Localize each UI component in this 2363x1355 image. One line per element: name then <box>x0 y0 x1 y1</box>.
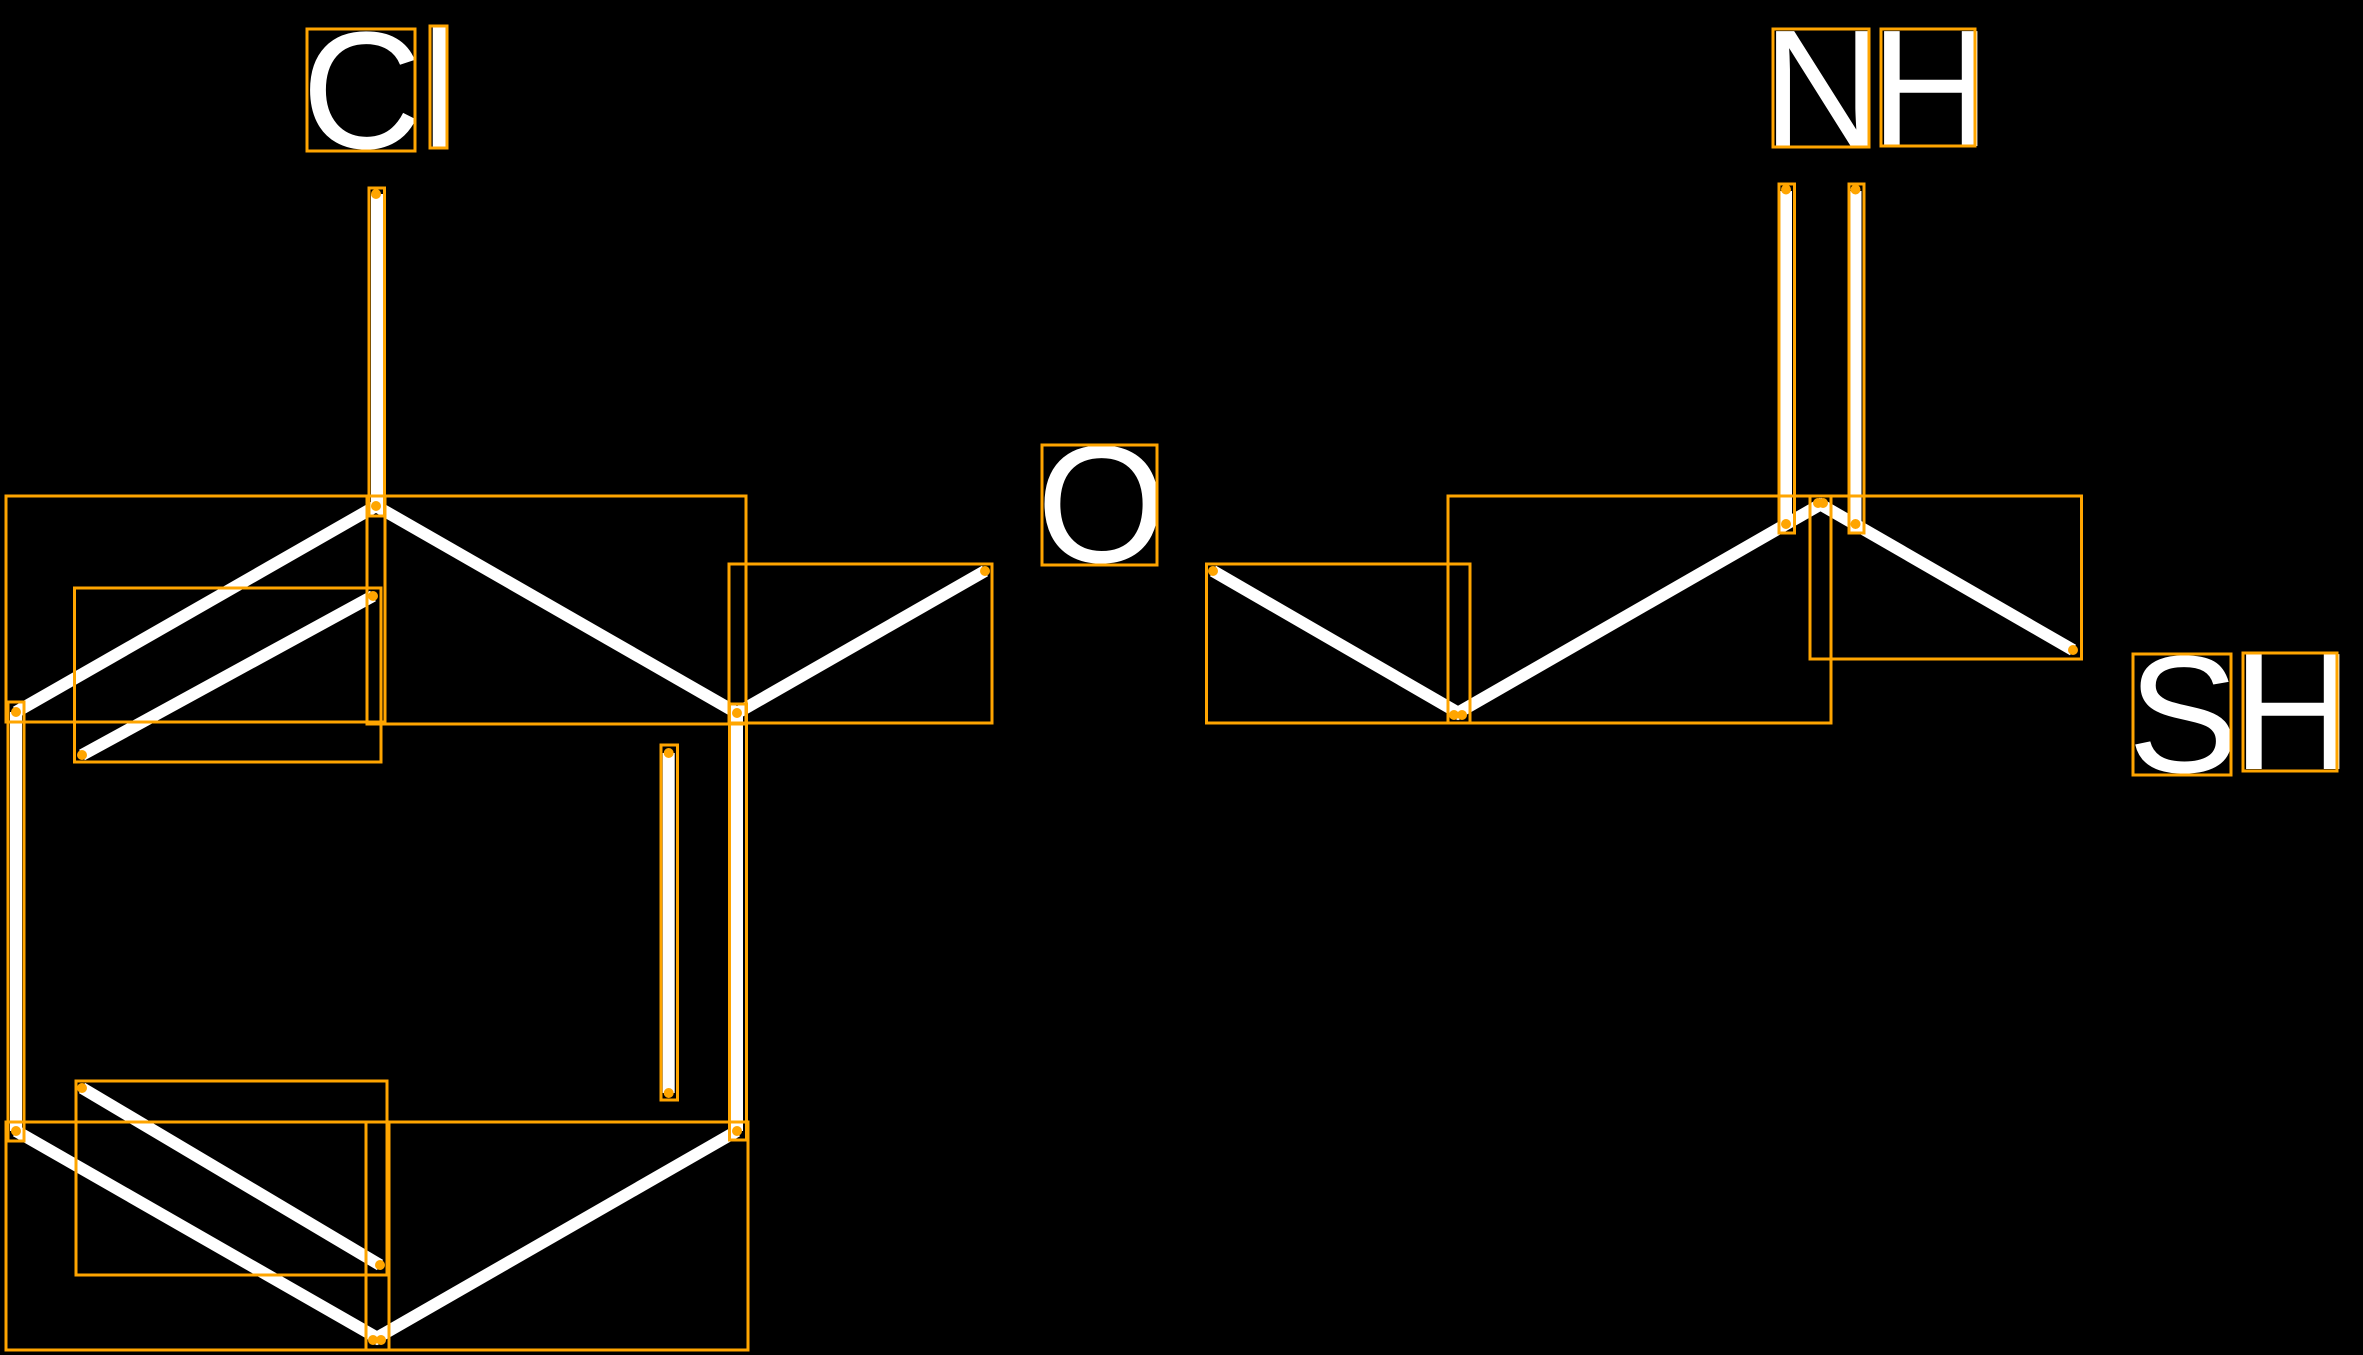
svg-text:O: O <box>1037 412 1167 598</box>
svg-text:H: H <box>1870 0 1991 182</box>
svg-text:N: N <box>1762 0 1883 182</box>
svg-text:S: S <box>2128 622 2239 808</box>
svg-text:l: l <box>422 0 459 184</box>
svg-text:H: H <box>2232 619 2353 805</box>
